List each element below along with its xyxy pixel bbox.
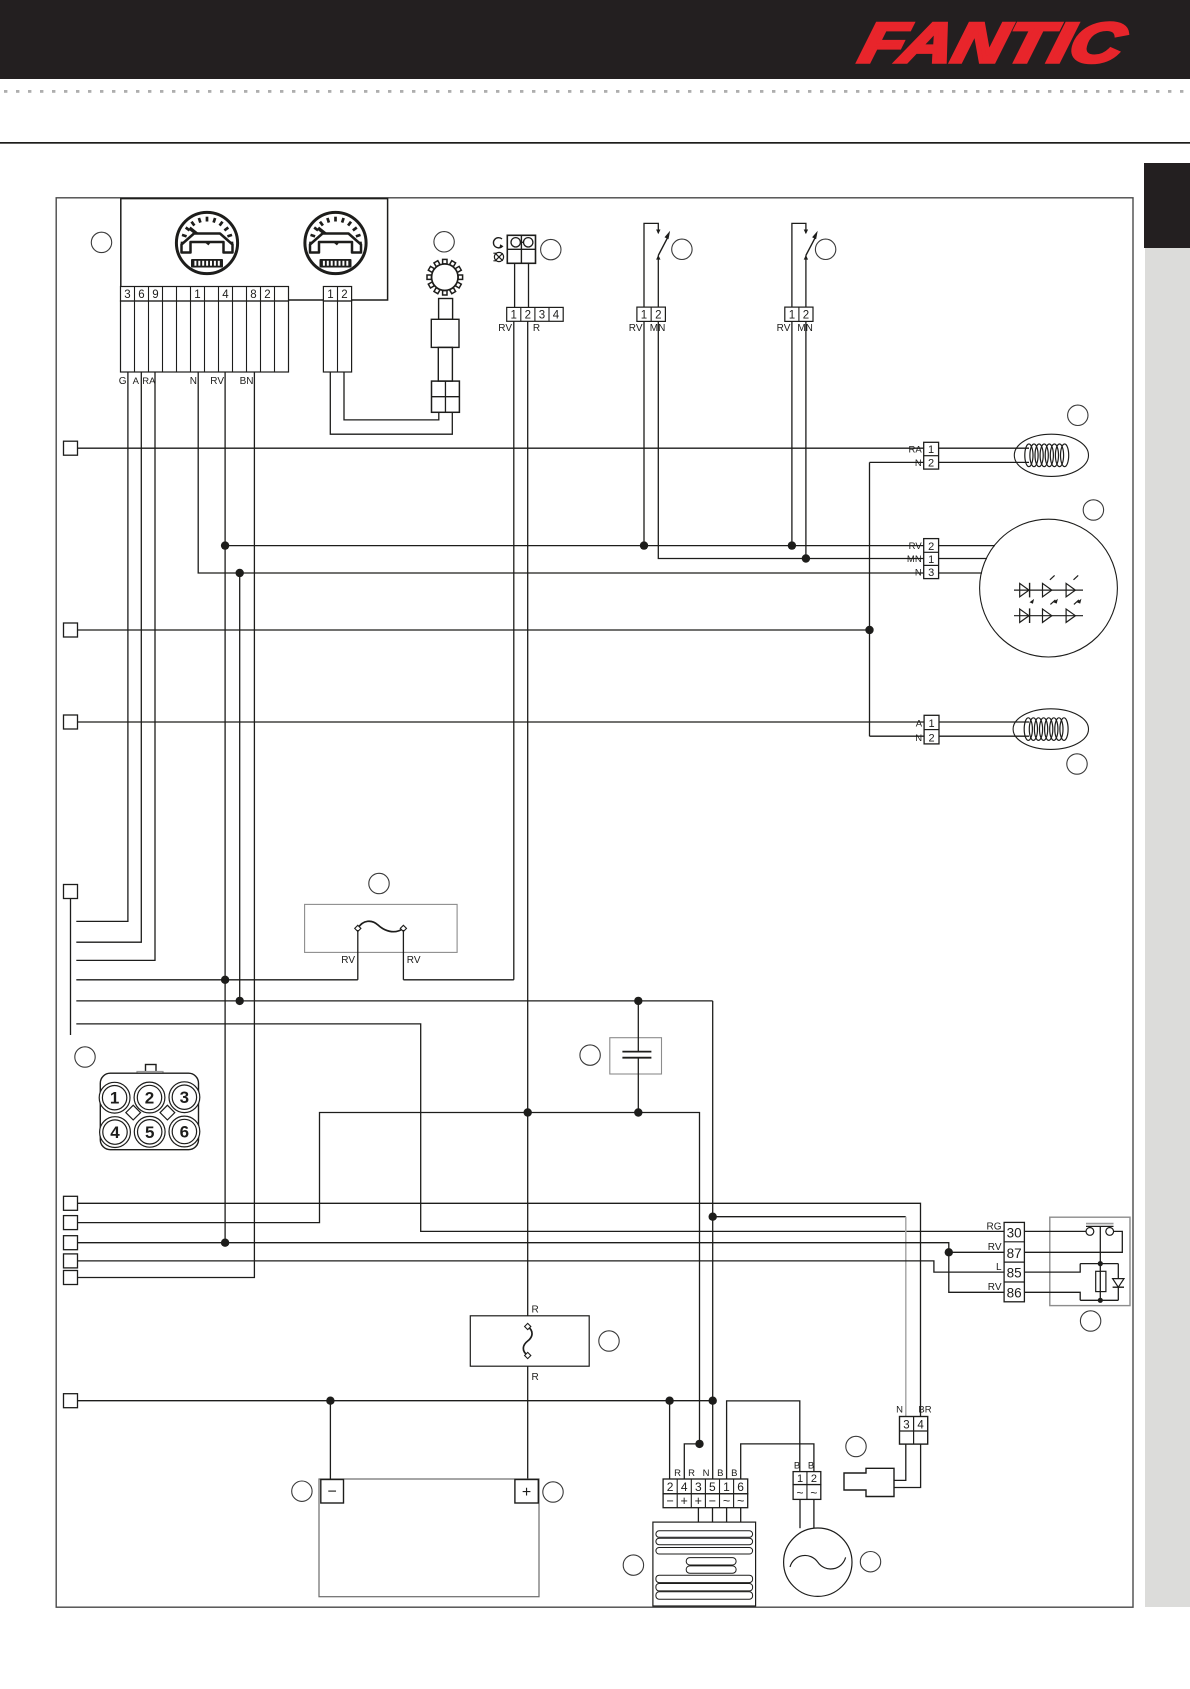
- LED unit connector: [924, 539, 939, 579]
- regulator connector strip: [663, 1479, 748, 1494]
- svg-text:4: 4: [917, 1419, 924, 1431]
- generator connector (1 2): [793, 1472, 821, 1485]
- wire A rail (tail lamp): [78, 721, 925, 723]
- fuse terminal stubs: [357, 930, 359, 980]
- terminal BR lead: [64, 1196, 78, 1210]
- front lamp bulb: [1014, 434, 1088, 476]
- svg-text:3: 3: [124, 289, 130, 301]
- wire R to regulator pin4: [684, 1444, 699, 1479]
- ignition switch gear ring: [427, 259, 463, 295]
- svg-text:B: B: [717, 1468, 723, 1479]
- LED emission marks: [1050, 575, 1055, 579]
- wire N (cluster to LED unit): [198, 372, 924, 573]
- svg-text:N: N: [915, 458, 922, 469]
- battery minus lead: [329, 1401, 331, 1480]
- terminal N ground lead: [64, 1394, 78, 1408]
- svg-text:9: 9: [152, 289, 158, 301]
- relay connector strip 30 87 85 86: [1004, 1222, 1024, 1301]
- svg-text:MN: MN: [907, 554, 922, 565]
- svg-text:L: L: [996, 1262, 1002, 1273]
- relay 87 internal: [1024, 1231, 1122, 1252]
- svg-text:−: −: [666, 1494, 673, 1508]
- svg-text:1: 1: [797, 1473, 803, 1485]
- wire N net vertical: [712, 1001, 714, 1479]
- free harness stubs: [76, 979, 358, 981]
- svg-text:RV: RV: [210, 376, 224, 387]
- resistor R box: [470, 1316, 589, 1366]
- wire N right vertical: [869, 462, 871, 736]
- tail lamp bulb: [1013, 709, 1088, 750]
- wire L to relay 85: [78, 1261, 1004, 1272]
- right grey band: [1145, 248, 1190, 1607]
- wire B2: [741, 1444, 814, 1479]
- wire RV (cluster): [224, 372, 226, 1243]
- svg-text:R: R: [688, 1468, 695, 1479]
- svg-text:3: 3: [180, 1088, 189, 1107]
- wire R to battery plus: [527, 1366, 529, 1479]
- terminal RV lead: [64, 1236, 78, 1250]
- svg-text:3: 3: [903, 1419, 909, 1431]
- wire terminal lead down: [70, 899, 72, 1036]
- callout front lamp: [1068, 405, 1088, 425]
- Fantic logo: [854, 13, 1133, 75]
- svg-text:BR: BR: [918, 1405, 931, 1416]
- cluster connector sleeves: [121, 301, 289, 372]
- wire cluster pin2 to key switch: [344, 372, 439, 420]
- wire RG net: [76, 1024, 1004, 1232]
- svg-text:1: 1: [110, 1089, 119, 1108]
- svg-text:MN: MN: [650, 323, 666, 334]
- svg-text:A: A: [916, 719, 923, 730]
- callout regulator: [623, 1555, 643, 1575]
- svg-text:3: 3: [928, 567, 934, 579]
- wire RV to relay 87/86: [78, 1243, 1004, 1253]
- svg-text:N: N: [896, 1405, 903, 1416]
- svg-text:B: B: [794, 1461, 800, 1472]
- svg-text:1: 1: [928, 554, 934, 566]
- header black bar: [0, 0, 1190, 79]
- wire RA rail (front lamp): [78, 447, 924, 449]
- generator: [784, 1528, 852, 1596]
- svg-text:3: 3: [539, 310, 545, 322]
- svg-text:R: R: [532, 1372, 539, 1383]
- LED unit wires: [939, 545, 995, 547]
- callout resistor: [599, 1331, 619, 1351]
- svg-text:4: 4: [681, 1480, 688, 1494]
- greeked caption line: [4, 90, 1183, 93]
- wire N grey lead: [905, 1217, 907, 1417]
- svg-text:1: 1: [510, 310, 516, 322]
- svg-text:1: 1: [194, 289, 200, 301]
- callout 6-pin connector: [75, 1047, 95, 1067]
- resistor element: [523, 1327, 532, 1356]
- pilot lamp block 2x2: [507, 235, 535, 263]
- callout relay: [1080, 1311, 1100, 1331]
- front lamp wires: [939, 447, 1029, 449]
- svg-text:1: 1: [723, 1480, 730, 1494]
- instrument cluster box: [121, 199, 388, 300]
- LED row 2: [1014, 615, 1083, 617]
- wire G: [76, 372, 128, 921]
- capacitor box: [610, 1038, 662, 1074]
- svg-text:1: 1: [928, 444, 934, 456]
- icon high beam lamp: [494, 252, 503, 261]
- svg-text:2: 2: [341, 289, 347, 301]
- relay 85 internal: [1024, 1264, 1080, 1273]
- wire RV net right of fuse: [403, 979, 513, 981]
- regulator heatsink: [653, 1522, 756, 1606]
- wire N net lower rail: [76, 1000, 712, 1002]
- switch SW1 (lights): [644, 223, 658, 307]
- gauge tachometer: [305, 212, 366, 273]
- svg-text:N: N: [190, 376, 197, 387]
- ignition coil / plug cap: [844, 1468, 894, 1496]
- svg-text:2: 2: [264, 289, 270, 301]
- wire BR lead: [78, 1203, 921, 1416]
- svg-text:N: N: [915, 733, 922, 744]
- svg-text:R: R: [533, 323, 540, 334]
- wire N to CDI connector: [713, 1216, 906, 1218]
- svg-text:A: A: [133, 376, 140, 387]
- svg-text:2: 2: [145, 1089, 154, 1108]
- callout capacitor: [580, 1045, 600, 1065]
- svg-text:RA: RA: [908, 445, 922, 456]
- front lamp connector: [924, 442, 939, 469]
- CDI connector (3 4): [900, 1417, 928, 1445]
- svg-text:2: 2: [811, 1473, 817, 1485]
- callout key switch: [434, 232, 454, 252]
- terminal tail lamp ground: [64, 623, 78, 637]
- wire N right rail: [78, 629, 870, 631]
- svg-text:2: 2: [525, 310, 531, 322]
- svg-text:B: B: [731, 1468, 737, 1479]
- svg-text:MN: MN: [797, 323, 813, 334]
- wire B1: [727, 1401, 800, 1479]
- svg-text:5: 5: [709, 1480, 716, 1494]
- junction RV / fuse feed: [221, 976, 229, 984]
- terminal BN lead: [64, 1271, 78, 1285]
- svg-text:N: N: [703, 1468, 710, 1479]
- callout tail lamp: [1067, 754, 1087, 774]
- svg-text:−: −: [328, 1484, 337, 1501]
- svg-text:86: 86: [1007, 1286, 1022, 1301]
- wire SW1 RV: [643, 321, 645, 545]
- wire R net riser: [78, 1113, 700, 1444]
- relay coil: [1098, 1261, 1103, 1266]
- LED row 1: [1014, 589, 1083, 591]
- regulator feed wires: [669, 1401, 671, 1479]
- pilot connector strip (1 2 3 4): [507, 307, 564, 321]
- svg-text:4: 4: [222, 289, 229, 301]
- horizontal rule: [0, 142, 1190, 144]
- wire BN: [78, 372, 254, 1278]
- svg-text:87: 87: [1007, 1246, 1022, 1261]
- ignition switch body: [439, 299, 453, 320]
- svg-text:2: 2: [928, 541, 934, 553]
- svg-text:2: 2: [928, 732, 934, 744]
- callout SW2: [815, 239, 835, 259]
- icon turn arrow: [493, 238, 502, 248]
- terminal connector lead: [64, 885, 78, 899]
- callout fuse: [369, 873, 389, 893]
- svg-text:RA: RA: [142, 376, 156, 387]
- svg-text:5: 5: [145, 1123, 154, 1142]
- wire SW1 MN: [658, 321, 923, 558]
- svg-text:6: 6: [737, 1480, 744, 1494]
- wire N branch down: [239, 573, 241, 1001]
- svg-text:RV: RV: [341, 955, 355, 966]
- tail lamp wires: [939, 721, 1029, 723]
- generator leads: [799, 1499, 801, 1528]
- wire RA: [76, 372, 155, 960]
- terminal front lamp feed: [64, 441, 78, 455]
- 6-pin connector: [99, 1065, 200, 1150]
- svg-text:3: 3: [695, 1480, 702, 1494]
- schematic outer border: [56, 198, 1133, 1607]
- wire SW2 RV: [791, 321, 793, 545]
- callout SW1: [672, 239, 692, 259]
- terminal L lead: [64, 1254, 78, 1268]
- wire SW2 MN: [805, 321, 807, 558]
- svg-text:~: ~: [796, 1486, 803, 1500]
- svg-text:RV: RV: [498, 323, 512, 334]
- svg-text:4: 4: [110, 1123, 120, 1142]
- relay diode: [1117, 1264, 1119, 1301]
- svg-text:G: G: [119, 376, 127, 387]
- callout generator: [860, 1552, 880, 1572]
- svg-text:RV: RV: [407, 955, 421, 966]
- svg-text:RV: RV: [629, 323, 643, 334]
- ignition switch connector block 2x2: [432, 381, 460, 412]
- svg-text:8: 8: [250, 289, 256, 301]
- capacitor plates: [622, 1051, 651, 1053]
- CDI wires: [894, 1444, 906, 1480]
- wire RV rail to LED unit: [225, 545, 924, 547]
- junction N branch: [236, 569, 244, 577]
- relay armature stem: [1099, 1226, 1101, 1263]
- svg-text:1: 1: [641, 310, 647, 322]
- svg-text:N: N: [915, 568, 922, 579]
- svg-text:~: ~: [723, 1494, 730, 1508]
- svg-text:FANTIC: FANTIC: [854, 13, 1133, 75]
- regulator stubs: [697, 1508, 699, 1522]
- svg-text:RV: RV: [909, 541, 923, 552]
- relay contact: [1024, 1230, 1086, 1232]
- wire pilot block to connector: [514, 263, 516, 307]
- callout cluster: [91, 232, 111, 252]
- right black tab: [1144, 163, 1190, 248]
- tail lamp connector: [924, 715, 939, 744]
- svg-text:1: 1: [327, 289, 333, 301]
- svg-text:RV: RV: [988, 1282, 1002, 1293]
- relay box: [1050, 1217, 1130, 1305]
- wire R pilot to resistor: [527, 321, 529, 1316]
- svg-text:R: R: [532, 1305, 539, 1316]
- callout LED unit: [1083, 500, 1103, 520]
- svg-text:−: −: [709, 1494, 716, 1508]
- callout ignition coil: [846, 1436, 866, 1456]
- svg-text:2: 2: [667, 1480, 674, 1494]
- svg-text:~: ~: [810, 1486, 817, 1500]
- svg-text:+: +: [522, 1484, 531, 1501]
- gauge speedometer: [176, 212, 237, 273]
- junction RV / horn feed: [221, 1239, 229, 1247]
- svg-text:6: 6: [180, 1123, 189, 1142]
- LED unit circle: [980, 519, 1118, 657]
- svg-text:30: 30: [1007, 1226, 1022, 1241]
- terminal R lead: [64, 1216, 78, 1230]
- svg-text:6: 6: [138, 289, 144, 301]
- svg-text:+: +: [681, 1494, 688, 1508]
- svg-text:R: R: [674, 1468, 681, 1479]
- callout pilot block: [541, 239, 561, 259]
- svg-text:4: 4: [553, 310, 560, 322]
- wire cluster pin1 to key switch: [330, 372, 452, 434]
- svg-text:RV: RV: [988, 1242, 1002, 1253]
- svg-text:2: 2: [928, 458, 934, 470]
- wire N ground rail: [78, 1400, 713, 1402]
- svg-text:RV: RV: [777, 323, 791, 334]
- callout battery minus: [292, 1481, 312, 1501]
- callout battery plus: [543, 1482, 563, 1502]
- cluster connector 2 (pins 1 2): [323, 287, 351, 302]
- wire RV pilot feed: [513, 321, 515, 980]
- pilot bulbs symbol: [511, 238, 520, 247]
- svg-text:B: B: [808, 1461, 814, 1472]
- svg-text:2: 2: [803, 310, 809, 322]
- wire A: [76, 372, 141, 942]
- svg-text:2: 2: [655, 310, 661, 322]
- fuse box: [305, 904, 458, 952]
- svg-text:1: 1: [928, 718, 934, 730]
- svg-text:1: 1: [789, 310, 795, 322]
- capacitor leads: [637, 1001, 639, 1052]
- cluster connector strip (12 pins): [121, 287, 289, 302]
- relay 86 internal: [1024, 1292, 1080, 1300]
- terminal tail lamp feed: [64, 715, 78, 729]
- svg-text:+: +: [695, 1494, 702, 1508]
- switch SW2 (horn): [792, 223, 806, 307]
- svg-text:RG: RG: [987, 1222, 1002, 1233]
- fuse element: [358, 921, 404, 931]
- battery: [319, 1479, 539, 1597]
- svg-text:~: ~: [737, 1494, 744, 1508]
- svg-text:BN: BN: [240, 376, 254, 387]
- svg-text:85: 85: [1007, 1266, 1022, 1281]
